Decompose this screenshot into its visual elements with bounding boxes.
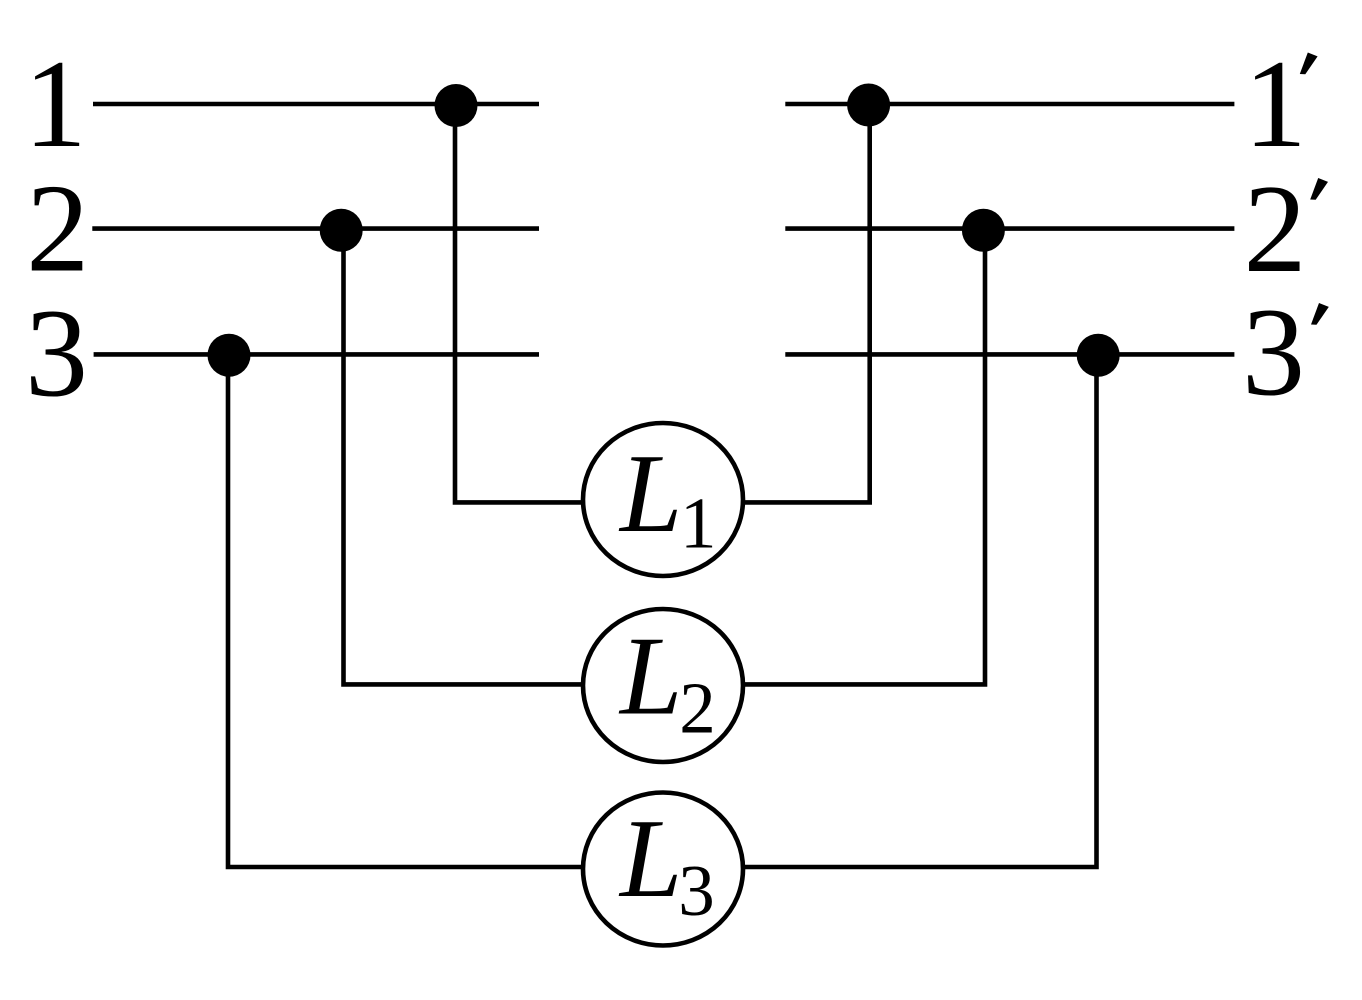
wire bus 3 left	[94, 352, 539, 357]
wire drop bus2 to lamp L2 left lead	[344, 229, 584, 685]
svg-text:2: 2	[26, 160, 89, 299]
wire lamp L2 right lead riser to bus2	[743, 229, 985, 685]
lamp L1 circle	[583, 423, 743, 576]
wire drop bus3 to lamp L3 left lead	[228, 354, 583, 867]
svg-text:L: L	[618, 797, 682, 921]
junction dot bus 1 right	[847, 84, 890, 127]
svg-text:3: 3	[1242, 284, 1305, 423]
junction dot bus 2 left	[320, 209, 363, 252]
svg-text:1: 1	[1244, 35, 1307, 174]
junction dot bus 3 right	[1077, 334, 1120, 377]
svg-text:3: 3	[678, 850, 715, 931]
wire lamp L3 right lead riser to bus3	[743, 354, 1097, 867]
node label 3' prime	[1311, 303, 1329, 325]
svg-text:2: 2	[1244, 160, 1307, 299]
svg-text:1: 1	[680, 483, 717, 564]
wire lamp L1 right lead riser to bus1	[743, 104, 870, 502]
node label 2' prime	[1310, 178, 1328, 200]
svg-text:2: 2	[679, 668, 716, 749]
wire bus 1 right	[785, 102, 1234, 107]
wire bus 3 right	[785, 352, 1234, 357]
lamp L3 circle	[583, 793, 743, 946]
svg-text:L: L	[618, 614, 682, 738]
svg-text:3: 3	[25, 284, 88, 423]
node label 1' prime	[1300, 53, 1318, 75]
wire bus 2 left	[92, 226, 539, 231]
junction dot bus 3 left	[208, 334, 251, 377]
wire bus 1 left	[93, 102, 539, 107]
junction dot bus 2 right	[962, 209, 1005, 252]
svg-text:L: L	[618, 432, 682, 556]
svg-text:1: 1	[24, 35, 87, 174]
wire drop bus1 to lamp L1 left lead	[455, 104, 583, 502]
junction dot bus 1 left	[435, 84, 478, 127]
lamp L2 circle	[583, 609, 743, 762]
wire bus 2 right	[785, 226, 1234, 231]
